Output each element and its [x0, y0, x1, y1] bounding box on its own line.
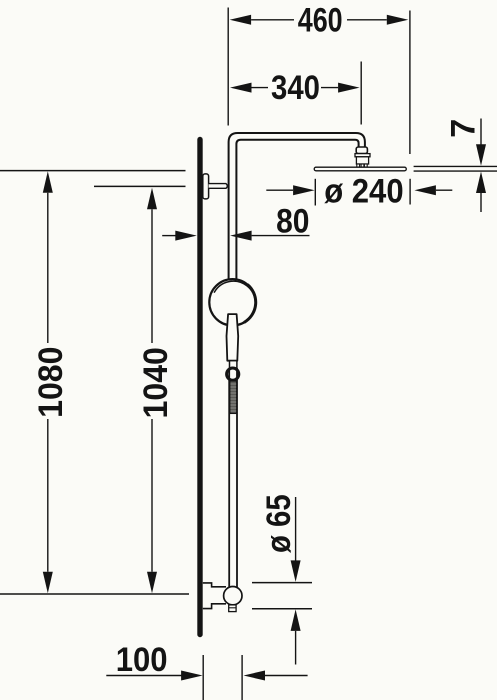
- arrowhead right 460: [387, 15, 409, 25]
- svg-text:460: 460: [298, 0, 343, 39]
- shower head mount block: [356, 157, 368, 164]
- arrowhead upper ø65 (points down): [291, 560, 301, 582]
- dimension line left 340: [252, 87, 269, 89]
- arrowhead upper 7 (points down): [476, 144, 486, 166]
- dimension line upper 1040: [151, 209, 153, 343]
- svg-text:7: 7: [445, 119, 483, 138]
- arrowhead right ø240 (points left): [414, 185, 436, 195]
- dimension line left 460: [251, 19, 294, 21]
- hand shower holder pin: [209, 184, 228, 189]
- ceiling line upper: [414, 165, 497, 167]
- svg-text:1040: 1040: [137, 347, 175, 418]
- dimension 7: [445, 119, 486, 213]
- outlet nub line: [229, 607, 236, 609]
- extension line left (shared 460/340): [227, 8, 229, 126]
- hand shower handle: [227, 314, 239, 361]
- hose right contour: [236, 368, 238, 587]
- arrowhead lower 7 (points up): [476, 172, 486, 194]
- wall mounting bar: [197, 140, 202, 635]
- extension line left 100: [202, 655, 204, 700]
- ceiling line lower: [414, 170, 497, 172]
- svg-text:340: 340: [271, 68, 320, 107]
- dimension 1040: [137, 188, 175, 594]
- dimension line lower 7: [480, 193, 482, 212]
- extension line right ø240: [409, 179, 411, 205]
- dimension 460: [228, 0, 410, 154]
- svg-text:1080: 1080: [32, 347, 70, 418]
- dimension 340: [230, 62, 361, 125]
- dimension line right 460: [347, 19, 387, 21]
- arrowhead bottom 1040 (points down): [147, 572, 157, 594]
- outlet ball joint: [224, 587, 242, 605]
- svg-text:100: 100: [116, 639, 168, 678]
- hand shower head circle: [209, 279, 255, 325]
- hand shower holder tab: [203, 174, 209, 199]
- dimension line upper ø65: [295, 497, 297, 561]
- dimension 1080: [32, 171, 70, 593]
- arrowhead left 80 (points right at bar): [175, 231, 197, 241]
- dimension line right 80: [252, 235, 310, 237]
- dimension line left 80: [162, 235, 176, 237]
- dimension ø65: [252, 494, 312, 664]
- reference line bottom (outlet datum): [0, 593, 189, 595]
- arrowhead top 1040 (points up): [147, 188, 157, 210]
- dimension line lower 1080: [47, 419, 49, 572]
- arrowhead right 100 (points left): [244, 671, 266, 681]
- dimension line right 340: [321, 87, 338, 89]
- outlet bracket upper contour: [203, 583, 226, 587]
- arrowhead left 340: [230, 83, 252, 93]
- riser pipe outer contour with top arm: [229, 133, 365, 279]
- reference line holder (1040 datum): [94, 185, 186, 187]
- extension line upper ø65: [252, 582, 312, 584]
- dimension 100: [106, 639, 307, 700]
- reference line top (1080 datum): [0, 170, 186, 172]
- shower head connector flange: [355, 154, 370, 157]
- extension line right 460: [409, 11, 411, 155]
- arrowhead right 340: [338, 83, 360, 93]
- dimension line right ø240: [436, 189, 452, 191]
- arrowhead right 80 (points left at riser): [230, 231, 252, 241]
- arrowhead top 1080 (points up): [43, 171, 53, 193]
- arrowhead lower ø65 (points up): [291, 609, 301, 631]
- dimension line lower ø65: [295, 631, 297, 665]
- handle neck: [230, 361, 237, 368]
- hose left contour: [228, 368, 230, 587]
- dimension ø240: [266, 171, 452, 210]
- dimension line upper 7: [480, 119, 482, 146]
- arrowhead left 460: [230, 15, 252, 25]
- svg-text:ø 240: ø 240: [324, 171, 403, 210]
- extension line left ø240: [314, 179, 316, 206]
- shower head connector nut: [356, 147, 367, 154]
- extension line right 100: [241, 655, 243, 700]
- hose ribbed sleeve: [230, 381, 237, 414]
- hose ribs: [230, 384, 236, 411]
- svg-text:80: 80: [276, 201, 309, 239]
- hand shower right thick edge arc: [244, 285, 256, 323]
- arrowhead left 100 (points right): [181, 671, 203, 681]
- hand shower inner highlight arc: [214, 281, 255, 319]
- shower head disc (side view): [314, 167, 406, 171]
- dimension line left ø240: [266, 189, 293, 191]
- dimension line left 100: [106, 675, 181, 677]
- dimension 80: [162, 201, 309, 240]
- extension line right 340: [360, 62, 362, 125]
- riser pipe inner contour with top arm: [236, 140, 358, 279]
- hose swivel ring: [227, 368, 239, 380]
- arrowhead bottom 1080 (points down): [43, 572, 53, 594]
- dimension line right 100: [265, 675, 308, 677]
- svg-text:ø 65: ø 65: [259, 494, 298, 553]
- outlet bracket lower contour: [203, 604, 226, 609]
- extension line lower ø65: [252, 608, 312, 610]
- mount block feet: [357, 164, 367, 167]
- dimension line lower 1040: [151, 419, 153, 572]
- dimension line upper 1080: [47, 193, 49, 343]
- outlet nub: [229, 605, 236, 612]
- arrowhead left ø240 (points right): [293, 185, 315, 195]
